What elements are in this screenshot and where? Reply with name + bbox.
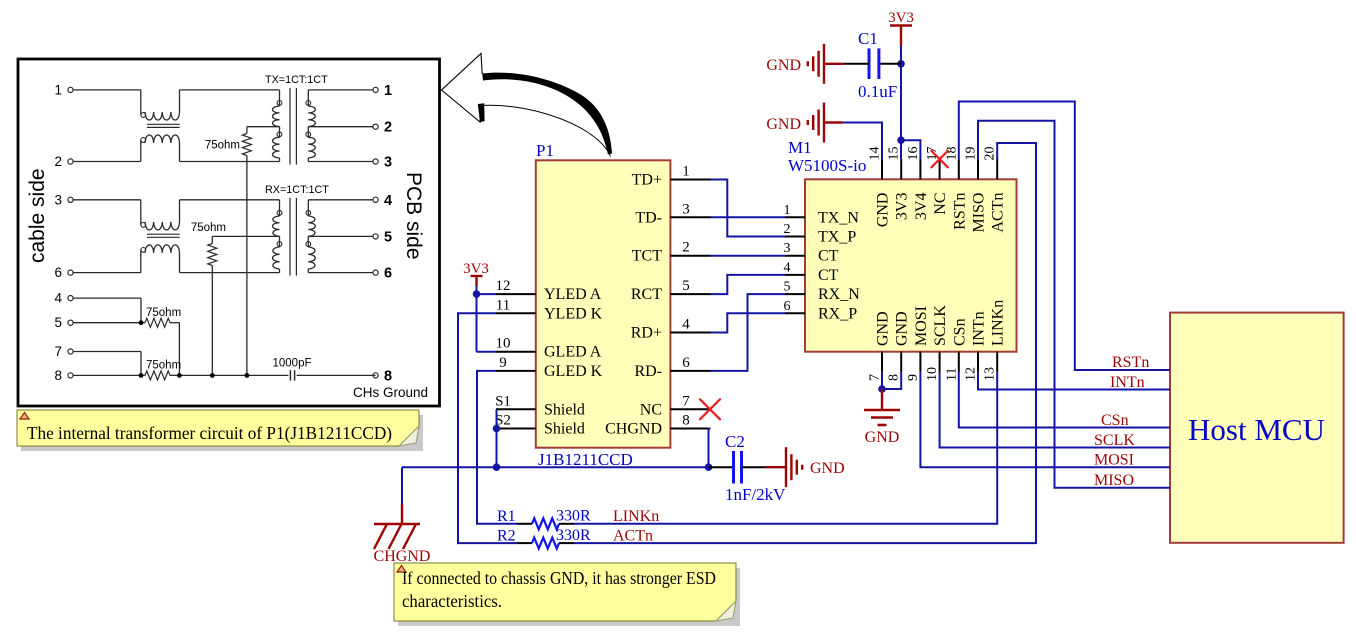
svg-text:20: 20 xyxy=(983,147,998,161)
svg-text:YLED A: YLED A xyxy=(544,286,602,303)
P1 left pin names xyxy=(544,286,603,437)
svg-text:RX_N: RX_N xyxy=(818,286,860,303)
PCB-side pin terminals xyxy=(373,83,392,385)
svg-text:The internal transformer circu: The internal transformer circuit of P1(J… xyxy=(27,423,392,444)
svg-text:J1B1211CCD: J1B1211CCD xyxy=(538,450,633,469)
svg-text:5: 5 xyxy=(54,315,62,330)
svg-text:75ohm: 75ohm xyxy=(191,222,226,234)
svg-text:5: 5 xyxy=(384,229,392,245)
svg-text:RD+: RD+ xyxy=(631,325,662,342)
resistor R1 330R xyxy=(517,518,574,529)
svg-text:3V3: 3V3 xyxy=(888,10,914,26)
M1 left pin stubs xyxy=(785,217,805,313)
svg-text:CHGND: CHGND xyxy=(605,421,662,438)
svg-text:8: 8 xyxy=(682,413,690,429)
RX channel common-mode choke xyxy=(73,200,280,273)
svg-text:NC: NC xyxy=(640,401,662,418)
svg-text:GLED A: GLED A xyxy=(544,344,602,361)
M1 top pin stubs xyxy=(882,159,997,179)
svg-text:RD-: RD- xyxy=(634,363,662,380)
svg-text:TD+: TD+ xyxy=(632,172,662,189)
M1 bottom pin names xyxy=(875,300,1007,346)
svg-text:MISO: MISO xyxy=(1094,472,1134,489)
wire YLED K pin11 to R2 xyxy=(458,313,517,543)
svg-text:14: 14 xyxy=(868,147,883,161)
power 3V3 at P1 xyxy=(463,261,489,286)
svg-text:LINKn: LINKn xyxy=(613,508,659,525)
wire pin8 GND xyxy=(882,372,901,389)
wire pin7 GND xyxy=(881,372,883,389)
svg-text:1: 1 xyxy=(784,203,791,218)
svg-text:Host MCU: Host MCU xyxy=(1188,412,1325,447)
svg-text:3: 3 xyxy=(54,192,62,207)
junction C1/3V3 xyxy=(897,60,905,68)
wire RD+ to RX_P xyxy=(711,313,786,332)
svg-text:10: 10 xyxy=(496,336,511,352)
svg-text:6: 6 xyxy=(784,299,791,314)
wire GLED K pin9 to R1 xyxy=(477,371,517,524)
svg-text:P1: P1 xyxy=(536,141,554,160)
svg-text:GND: GND xyxy=(766,57,801,74)
svg-text:cable side: cable side xyxy=(26,168,49,263)
svg-text:13: 13 xyxy=(983,367,998,381)
svg-text:1: 1 xyxy=(54,82,62,97)
resistor 75ohm TX termination xyxy=(205,127,252,376)
svg-text:M1: M1 xyxy=(788,138,812,157)
svg-text:0.1uF: 0.1uF xyxy=(858,82,897,101)
svg-text:1: 1 xyxy=(682,164,690,180)
wire 3V3 net vertical xyxy=(900,46,902,64)
svg-text:CHGND: CHGND xyxy=(374,548,431,565)
svg-text:12: 12 xyxy=(496,278,511,294)
svg-text:2: 2 xyxy=(682,240,690,256)
chassis ground symbol CHGND xyxy=(374,504,431,565)
svg-text:R1: R1 xyxy=(497,508,516,525)
svg-text:CT: CT xyxy=(818,248,839,265)
svg-text:3: 3 xyxy=(384,155,392,171)
svg-text:6: 6 xyxy=(682,355,690,371)
earth ground symbol under M1 xyxy=(864,389,900,446)
svg-text:GLED K: GLED K xyxy=(544,363,603,380)
svg-text:4: 4 xyxy=(54,291,62,306)
resistor 75ohm RX termination xyxy=(191,222,226,375)
wire CHGND drop xyxy=(401,467,403,504)
capacitor C1 xyxy=(844,48,901,79)
svg-text:GND: GND xyxy=(875,311,892,346)
TX isolation transformer 1CT:1CT xyxy=(247,88,373,165)
M1 left pin names xyxy=(818,209,860,322)
svg-text:R2: R2 xyxy=(497,528,516,545)
svg-text:TX_P: TX_P xyxy=(818,229,856,246)
svg-text:TX=1CT:1CT: TX=1CT:1CT xyxy=(265,74,328,86)
P1 right pin names xyxy=(605,172,662,438)
inset junctions xyxy=(139,320,250,377)
svg-text:9: 9 xyxy=(906,374,921,381)
power GND lower (pin14) xyxy=(766,103,842,143)
svg-text:1000pF: 1000pF xyxy=(272,357,311,369)
svg-text:GND: GND xyxy=(894,311,911,346)
RX isolation transformer 1CT:1CT xyxy=(212,198,373,276)
wire P1 pin8 CHGND to rail xyxy=(709,429,711,468)
junction 3V3/pin12 xyxy=(473,290,481,298)
svg-text:S1: S1 xyxy=(495,393,511,409)
svg-text:3V3: 3V3 xyxy=(463,261,489,277)
svg-text:C2: C2 xyxy=(725,432,745,451)
svg-text:CSn: CSn xyxy=(951,318,968,346)
M1 left pin numbers 1-6 xyxy=(784,203,791,314)
svg-text:8: 8 xyxy=(384,368,392,384)
svg-text:7: 7 xyxy=(682,393,690,409)
power 3V3 at C1 xyxy=(888,10,914,46)
svg-text:330R: 330R xyxy=(556,508,591,525)
wire SCLK pin10 xyxy=(940,372,1170,448)
svg-text:INTn: INTn xyxy=(1110,374,1145,391)
red X no-connect on P1 pin 7 xyxy=(700,399,720,419)
svg-text:Shield: Shield xyxy=(544,421,585,438)
P1 left pin numbers xyxy=(495,278,511,428)
svg-text:11: 11 xyxy=(944,368,959,381)
wires cable pins 7/8 ground rail with 75ohm xyxy=(73,352,288,380)
IC M1 W5100S-io body xyxy=(805,179,1017,351)
callout arrow from P1 to inset xyxy=(442,54,613,157)
svg-text:3V4: 3V4 xyxy=(913,193,930,221)
svg-text:YLED K: YLED K xyxy=(544,305,603,322)
svg-text:75ohm: 75ohm xyxy=(205,140,240,152)
power GND at C2 xyxy=(766,447,845,487)
svg-text:TCT: TCT xyxy=(632,248,662,265)
svg-text:MOSI: MOSI xyxy=(913,306,930,346)
svg-text:3: 3 xyxy=(682,201,690,217)
red X no-connect on M1 pin 17 xyxy=(931,151,947,167)
svg-text:If connected to chassis GND, i: If connected to chassis GND, it has stro… xyxy=(402,568,716,588)
TX channel common-mode choke xyxy=(73,90,280,162)
wire GND to M1 pin14 xyxy=(843,123,882,160)
connector P1 J1B1211CCD body xyxy=(536,160,671,447)
P1 right pin numbers xyxy=(682,164,690,429)
note: internal transformer circuit xyxy=(17,410,423,451)
svg-text:PCB side: PCB side xyxy=(402,172,425,260)
wire MOSI pin9 xyxy=(920,372,1170,467)
M1 top pin names xyxy=(875,193,1007,233)
svg-text:15: 15 xyxy=(887,147,902,161)
svg-text:GND: GND xyxy=(865,429,900,446)
svg-text:4: 4 xyxy=(784,260,791,275)
svg-text:NC: NC xyxy=(932,193,949,215)
power GND upper (C1) xyxy=(766,44,843,84)
svg-text:16: 16 xyxy=(906,147,921,161)
svg-text:Shield: Shield xyxy=(544,401,585,418)
svg-text:19: 19 xyxy=(964,147,979,161)
svg-text:GND: GND xyxy=(810,460,845,477)
resistor R2 330R xyxy=(517,538,574,549)
svg-text:W5100S-io: W5100S-io xyxy=(788,156,866,175)
svg-text:9: 9 xyxy=(499,355,507,371)
svg-text:GND: GND xyxy=(766,116,801,133)
wire 3V3 to YLED A pin12 xyxy=(476,286,478,294)
svg-text:CHs Ground: CHs Ground xyxy=(353,385,428,400)
note: chassis GND ESD xyxy=(394,563,740,626)
svg-text:5: 5 xyxy=(682,278,690,294)
svg-text:75ohm: 75ohm xyxy=(146,359,181,371)
capacitor 1000pF xyxy=(272,357,375,380)
wire RD- to RX_N xyxy=(711,294,786,371)
svg-text:SCLK: SCLK xyxy=(1094,432,1135,449)
capacitor C2 xyxy=(709,451,766,484)
svg-text:7: 7 xyxy=(868,374,883,381)
svg-text:RSTn: RSTn xyxy=(951,193,968,230)
junction S1/S2 xyxy=(493,425,501,433)
svg-text:10: 10 xyxy=(925,367,940,381)
svg-text:8: 8 xyxy=(887,374,902,381)
wire CSn pin11 xyxy=(959,372,1170,428)
svg-text:TD-: TD- xyxy=(635,209,662,226)
svg-text:SCLK: SCLK xyxy=(932,305,949,346)
svg-text:RSTn: RSTn xyxy=(1112,354,1149,371)
svg-text:C1: C1 xyxy=(858,29,878,48)
svg-text:MISO: MISO xyxy=(971,193,988,233)
svg-text:2: 2 xyxy=(54,154,62,169)
svg-text:GND: GND xyxy=(875,193,892,228)
svg-text:3: 3 xyxy=(784,241,791,256)
svg-text:CSn: CSn xyxy=(1101,412,1129,429)
svg-text:LINKn: LINKn xyxy=(990,300,1007,346)
svg-text:5: 5 xyxy=(784,280,791,295)
P1 right pins stubs xyxy=(670,180,710,429)
wire TD- to TX_N xyxy=(711,216,786,218)
wire 3V3 down to GLED A pin10 xyxy=(476,294,478,352)
wire 3V4 branch xyxy=(901,140,920,159)
junction shield/CHGND rail xyxy=(493,463,501,471)
svg-text:RX=1CT:1CT: RX=1CT:1CT xyxy=(265,184,329,196)
svg-text:12: 12 xyxy=(964,367,979,381)
svg-text:6: 6 xyxy=(54,265,62,280)
M1 bottom pin numbers 7-13 xyxy=(868,367,998,381)
svg-text:2: 2 xyxy=(384,120,392,136)
svg-text:11: 11 xyxy=(496,297,510,313)
svg-text:1nF/2kV: 1nF/2kV xyxy=(725,485,786,504)
wire LINKn to M1 pin13 xyxy=(574,372,997,524)
CHGND horizontal rail xyxy=(402,466,709,468)
M1 bottom pin stubs xyxy=(882,352,997,372)
junction GND pins xyxy=(878,385,886,393)
svg-text:7: 7 xyxy=(54,344,62,359)
wire RCT to CT xyxy=(711,275,786,294)
svg-text:3V3: 3V3 xyxy=(894,193,911,221)
wire TCT to CT xyxy=(711,255,786,257)
svg-text:RX_P: RX_P xyxy=(818,305,857,322)
svg-text:2: 2 xyxy=(784,222,791,237)
svg-text:RCT: RCT xyxy=(631,286,662,303)
wires cable pins 4/5 with 75ohm xyxy=(73,298,181,375)
wire RSTn pin18 xyxy=(959,102,1170,371)
svg-text:75ohm: 75ohm xyxy=(146,307,181,319)
svg-text:6: 6 xyxy=(384,266,392,282)
svg-text:1: 1 xyxy=(384,83,392,99)
wire shield S2 down to CHGND net xyxy=(496,429,498,468)
wire TD+ to TX_P xyxy=(711,180,786,237)
M1 top pin numbers 14-20 xyxy=(868,147,998,161)
wire ACTn to M1 pin20 xyxy=(574,143,1036,543)
inset transformer-detail box xyxy=(18,59,440,406)
svg-text:ACTn: ACTn xyxy=(613,528,653,545)
P1 left pins stubs xyxy=(496,294,536,428)
svg-text:TX_N: TX_N xyxy=(818,209,859,226)
junction pin8/C2 xyxy=(705,463,713,471)
svg-text:4: 4 xyxy=(682,317,690,333)
svg-text:characteristics.: characteristics. xyxy=(402,591,502,611)
svg-text:MOSI: MOSI xyxy=(1094,452,1134,469)
junction 3V3/3V4 xyxy=(897,136,905,144)
Host MCU block xyxy=(1170,313,1344,543)
wire MISO pin19 xyxy=(978,121,1170,488)
svg-text:ACTn: ACTn xyxy=(990,193,1007,233)
cable-side pin labels and terminals xyxy=(54,82,73,383)
svg-text:4: 4 xyxy=(384,193,392,209)
svg-text:8: 8 xyxy=(54,368,62,383)
svg-text:CT: CT xyxy=(818,267,839,284)
wire INTn pin12 xyxy=(978,372,1170,390)
svg-text:330R: 330R xyxy=(556,527,591,544)
wire shield S1 xyxy=(496,409,498,428)
svg-text:INTn: INTn xyxy=(971,311,988,346)
